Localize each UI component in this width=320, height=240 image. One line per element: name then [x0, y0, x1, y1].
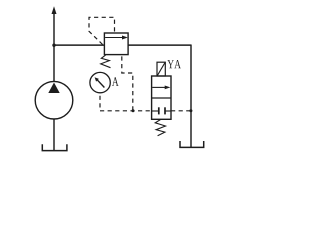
relief valve flow arrow — [105, 37, 123, 39]
valve return spring — [155, 120, 165, 136]
valve bottom-position blocked port right — [164, 107, 166, 114]
wire: relief valve outlet to return line — [128, 44, 191, 46]
valve position divider — [152, 97, 171, 99]
valve bottom-position blocked port left — [152, 110, 159, 112]
tank T1 — [42, 144, 67, 150]
label A — [112, 77, 119, 86]
gauge sensing stem (dashed) — [99, 94, 101, 111]
node: pressure-line junction dot — [52, 44, 55, 47]
pilot stub valve to return line (dashed) — [171, 110, 191, 112]
wire: pump suction to tank — [53, 119, 55, 151]
relief valve drain line (dashed) — [122, 55, 133, 111]
pump P — [35, 81, 73, 119]
pressure gauge body — [90, 72, 110, 92]
wire: return line down to tank — [190, 45, 192, 148]
arrow: flow direction to system — [52, 6, 57, 14]
wire: pump outlet riser — [53, 13, 55, 82]
node: drain junction dot — [132, 109, 135, 112]
relief valve spring — [101, 55, 111, 68]
solenoid diagonal — [157, 62, 165, 75]
pump flow triangle — [48, 83, 59, 94]
solenoid coil YA — [157, 62, 165, 76]
wire: pressure line junction to relief valve — [54, 44, 104, 46]
tank T2 — [180, 141, 204, 147]
node: return line dot — [189, 109, 192, 112]
label YA — [167, 60, 173, 68]
valve top-position flow arrow — [152, 86, 165, 88]
relief valve body — [104, 33, 128, 55]
relief valve pilot line (dashed) — [89, 17, 115, 44]
pilot line gauge to valve (dashed) — [100, 110, 152, 112]
gauge needle — [97, 79, 105, 87]
solenoid valve body — [152, 76, 171, 119]
